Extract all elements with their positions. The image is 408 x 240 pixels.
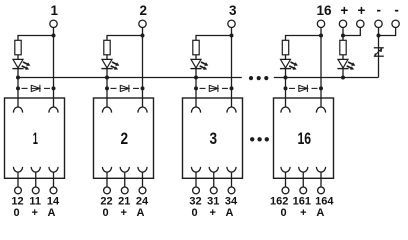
wire bottom pin 161 bbox=[302, 172, 304, 187]
node bus junction channel 16 bbox=[284, 76, 288, 80]
LED indicator channel 2 bbox=[101, 59, 119, 69]
node diode-row left junction 3 bbox=[194, 86, 198, 90]
wire bottom pin 14 bbox=[53, 172, 55, 187]
svg-text:31: 31 bbox=[207, 196, 219, 208]
pin number label 162 bbox=[270, 196, 288, 208]
dashed link channel 16 bbox=[289, 87, 318, 89]
wire resistor R3 to LED bbox=[195, 55, 197, 60]
node junction under terminal 16 bbox=[319, 34, 323, 38]
plug contact top left box 16 bbox=[281, 107, 290, 113]
node diode-row right junction 16 bbox=[319, 86, 323, 90]
wire resistor R2 to LED bbox=[106, 55, 108, 60]
wire resistor R1 to LED bbox=[17, 55, 19, 60]
node bus junction channel 2 bbox=[105, 76, 109, 80]
signal label 0 channel 2 bbox=[102, 207, 108, 219]
wire junction 3 to resistor bbox=[196, 36, 232, 41]
socket contact bottom box 1 pin 12 bbox=[13, 167, 22, 172]
wire bottom pin 32 bbox=[195, 172, 197, 187]
module box 2 bbox=[94, 98, 154, 178]
terminal label 2 bbox=[140, 3, 148, 18]
svg-text:+: + bbox=[300, 207, 306, 219]
svg-text:0: 0 bbox=[13, 207, 19, 219]
wire LED 1 to bus bbox=[17, 69, 19, 107]
node bus junction channel 1 bbox=[16, 76, 20, 80]
module box 16 bbox=[274, 98, 334, 178]
wire LED 16 to bus bbox=[285, 69, 287, 107]
wire - first down to suppressor bbox=[378, 28, 380, 57]
node junction under terminal 2 bbox=[141, 34, 145, 38]
resistor R16 bbox=[282, 40, 288, 55]
svg-text:A: A bbox=[316, 207, 324, 219]
node diode-row right junction 2 bbox=[141, 86, 145, 90]
terminal circle + (second) bbox=[357, 20, 364, 27]
terminal circle 34 bbox=[228, 187, 235, 194]
wire bottom pin 22 bbox=[106, 172, 108, 187]
terminal circle 24 bbox=[139, 187, 146, 194]
terminal circle 22 bbox=[104, 187, 111, 194]
wire resistor R17 to LED bbox=[342, 55, 344, 60]
ellipsis on bus (channels 4..15) bbox=[249, 76, 269, 80]
wire + first down bbox=[342, 28, 344, 41]
socket contact bottom box 16 pin 162 bbox=[281, 167, 290, 172]
socket contact bottom box 16 pin 164 bbox=[316, 167, 325, 172]
wire junction 1 to resistor bbox=[18, 36, 54, 41]
node junction under terminal 1 bbox=[52, 34, 56, 38]
signal label + channel 16 bbox=[300, 207, 306, 219]
wire suppressor to bus bbox=[378, 56, 380, 77]
node supply LED bus junction bbox=[341, 76, 345, 80]
pin number label 12 bbox=[11, 196, 23, 208]
socket contact bottom box 2 pin 22 bbox=[102, 167, 111, 172]
wire bottom pin 162 bbox=[285, 172, 287, 187]
pin number label 14 bbox=[47, 196, 60, 208]
bus wire left segment bbox=[18, 77, 242, 79]
module box 3 bbox=[183, 98, 243, 178]
socket contact bottom box 3 pin 34 bbox=[227, 167, 236, 172]
wire - second to junction bbox=[379, 28, 396, 36]
svg-text:161: 161 bbox=[293, 196, 311, 208]
terminal label - (second) bbox=[394, 3, 399, 18]
diode D2 (dashed optional link) bbox=[120, 85, 129, 92]
wire terminal 16 down to module bbox=[320, 28, 322, 108]
diode D3 (dashed optional link) bbox=[209, 85, 218, 92]
node diode-row right junction 3 bbox=[230, 86, 234, 90]
wire junction 2 to resistor bbox=[107, 36, 143, 41]
LED indicator channel 1 bbox=[12, 59, 30, 69]
pin number label 32 bbox=[189, 196, 201, 208]
plug contact top right box 2 bbox=[138, 107, 147, 113]
LED indicator channel 16 bbox=[280, 59, 298, 69]
plug contact top right box 3 bbox=[227, 107, 236, 113]
svg-text:A: A bbox=[226, 207, 234, 219]
terminal circle 12 bbox=[15, 187, 22, 194]
module box label 1 bbox=[33, 130, 38, 148]
node diode-row left junction 1 bbox=[16, 86, 20, 90]
signal label A channel 16 bbox=[316, 207, 324, 219]
svg-text:+: + bbox=[121, 207, 127, 219]
svg-text:+: + bbox=[210, 207, 216, 219]
svg-text:0: 0 bbox=[102, 207, 108, 219]
socket contact bottom box 1 pin 14 bbox=[49, 167, 58, 172]
wire bottom pin 164 bbox=[320, 172, 322, 187]
svg-text:0: 0 bbox=[281, 207, 287, 219]
terminal circle - (second) bbox=[392, 20, 399, 27]
svg-text:14: 14 bbox=[47, 196, 60, 208]
terminal label 3 bbox=[229, 3, 237, 18]
svg-text:A: A bbox=[48, 207, 56, 219]
node + junction bbox=[341, 34, 345, 38]
ellipsis between boxes (channels 4..15) bbox=[250, 137, 269, 141]
svg-text:16: 16 bbox=[316, 3, 332, 18]
terminal circle 2 bbox=[139, 20, 146, 27]
wire junction 16 to resistor bbox=[286, 36, 322, 41]
pin number label 31 bbox=[207, 196, 219, 208]
svg-text:12: 12 bbox=[11, 196, 23, 208]
dashed link channel 1 bbox=[22, 87, 51, 89]
plug contact top left box 2 bbox=[102, 107, 111, 113]
plug contact top right box 1 bbox=[49, 107, 58, 113]
wire bottom pin 21 bbox=[124, 172, 126, 187]
node diode-row left junction 2 bbox=[105, 86, 109, 90]
node diode-row left junction 16 bbox=[284, 86, 288, 90]
wire terminal 1 down to module bbox=[53, 28, 55, 108]
pin number label 11 bbox=[29, 196, 41, 208]
module box label 2 bbox=[121, 130, 129, 148]
signal label A channel 2 bbox=[137, 207, 145, 219]
svg-text:164: 164 bbox=[315, 196, 334, 208]
svg-text:+: + bbox=[340, 3, 348, 18]
resistor R2 bbox=[104, 40, 110, 55]
svg-text:2: 2 bbox=[140, 3, 148, 18]
terminal label + (second) bbox=[358, 3, 366, 18]
signal label A channel 3 bbox=[226, 207, 234, 219]
wire bottom pin 31 bbox=[213, 172, 215, 187]
signal label 0 channel 1 bbox=[13, 207, 19, 219]
suppressor diode (transient protection) bbox=[374, 48, 384, 56]
svg-text:162: 162 bbox=[270, 196, 288, 208]
wire bottom pin 12 bbox=[17, 172, 19, 187]
pin number label 21 bbox=[118, 196, 130, 208]
terminal circle 31 bbox=[210, 187, 217, 194]
wire LED 2 to bus bbox=[106, 69, 108, 107]
wire terminal 3 down to module bbox=[231, 28, 233, 108]
svg-text:-: - bbox=[394, 3, 399, 18]
terminal circle 164 bbox=[318, 187, 325, 194]
LED indicator channel 3 bbox=[190, 59, 208, 69]
svg-text:34: 34 bbox=[225, 196, 238, 208]
svg-text:3: 3 bbox=[229, 3, 237, 18]
svg-text:-: - bbox=[377, 3, 382, 18]
node diode-row right junction 1 bbox=[52, 86, 56, 90]
diode D1 (dashed optional link) bbox=[31, 85, 40, 92]
node - junction bbox=[377, 34, 381, 38]
socket contact bottom box 3 pin 32 bbox=[191, 167, 200, 172]
diode D16 (dashed optional link) bbox=[299, 85, 308, 92]
signal label A channel 1 bbox=[48, 207, 56, 219]
terminal circle 21 bbox=[121, 187, 128, 194]
terminal circle + (first) bbox=[339, 20, 346, 27]
socket contact bottom box 2 pin 24 bbox=[138, 167, 147, 172]
svg-text:3: 3 bbox=[210, 130, 218, 148]
signal label + channel 2 bbox=[121, 207, 127, 219]
resistor R1 bbox=[15, 40, 21, 55]
pin number label 161 bbox=[293, 196, 311, 208]
node bus junction channel 3 bbox=[194, 76, 198, 80]
svg-text:1: 1 bbox=[51, 3, 59, 18]
svg-text:A: A bbox=[137, 207, 145, 219]
wire terminal 2 down to module bbox=[142, 28, 144, 108]
svg-text:0: 0 bbox=[191, 207, 197, 219]
svg-text:16: 16 bbox=[298, 130, 312, 148]
terminal circle - (first) bbox=[375, 20, 382, 27]
svg-text:11: 11 bbox=[29, 196, 41, 208]
terminal circle 3 bbox=[228, 20, 235, 27]
svg-text:21: 21 bbox=[118, 196, 130, 208]
signal label 0 channel 3 bbox=[191, 207, 197, 219]
wire bottom pin 34 bbox=[231, 172, 233, 187]
dashed link channel 2 bbox=[111, 87, 140, 89]
pin number label 22 bbox=[100, 196, 112, 208]
socket contact bottom box 1 pin 11 bbox=[31, 167, 40, 172]
plug contact top right box 16 bbox=[316, 107, 325, 113]
pin number label 24 bbox=[136, 196, 149, 208]
terminal circle 1 bbox=[50, 20, 57, 27]
socket contact bottom box 16 pin 161 bbox=[299, 167, 308, 172]
terminal circle 14 bbox=[50, 187, 57, 194]
signal label 0 channel 16 bbox=[281, 207, 287, 219]
signal label + channel 3 bbox=[210, 207, 216, 219]
terminal circle 162 bbox=[282, 187, 289, 194]
module box label 3 bbox=[210, 130, 218, 148]
resistor R3 bbox=[193, 40, 199, 55]
wire bottom pin 11 bbox=[35, 172, 37, 187]
socket contact bottom box 3 pin 31 bbox=[209, 167, 218, 172]
terminal circle 161 bbox=[300, 187, 307, 194]
svg-text:+: + bbox=[32, 207, 38, 219]
wire bottom pin 24 bbox=[142, 172, 144, 187]
plug contact top left box 3 bbox=[191, 107, 200, 113]
terminal label - (first) bbox=[377, 3, 382, 18]
svg-text:24: 24 bbox=[136, 196, 149, 208]
plug contact top left box 1 bbox=[13, 107, 22, 113]
module box label 16 bbox=[298, 130, 312, 148]
pin number label 34 bbox=[225, 196, 238, 208]
module box 1 bbox=[5, 98, 65, 178]
terminal circle 11 bbox=[32, 187, 39, 194]
pin number label 164 bbox=[315, 196, 334, 208]
terminal label + (first) bbox=[340, 3, 348, 18]
node junction under terminal 3 bbox=[230, 34, 234, 38]
socket contact bottom box 2 pin 21 bbox=[120, 167, 129, 172]
signal label + channel 1 bbox=[32, 207, 38, 219]
bus wire right segment bbox=[274, 77, 379, 79]
LED indicator supply bbox=[337, 59, 355, 69]
svg-text:1: 1 bbox=[33, 130, 38, 148]
terminal circle 16 bbox=[317, 20, 324, 27]
terminal circle 32 bbox=[193, 187, 200, 194]
svg-text:22: 22 bbox=[100, 196, 112, 208]
svg-text:2: 2 bbox=[121, 130, 129, 148]
resistor R17 (+ branch) bbox=[340, 40, 346, 55]
svg-text:+: + bbox=[358, 3, 366, 18]
wire resistor R16 to LED bbox=[285, 55, 287, 60]
wire supply LED to bus bbox=[342, 69, 344, 78]
svg-text:32: 32 bbox=[189, 196, 201, 208]
terminal label 1 bbox=[51, 3, 59, 18]
dashed link channel 3 bbox=[200, 87, 229, 89]
terminal label 16 bbox=[316, 3, 332, 18]
wire LED 3 to bus bbox=[195, 69, 197, 107]
wire + second to junction bbox=[343, 28, 360, 36]
